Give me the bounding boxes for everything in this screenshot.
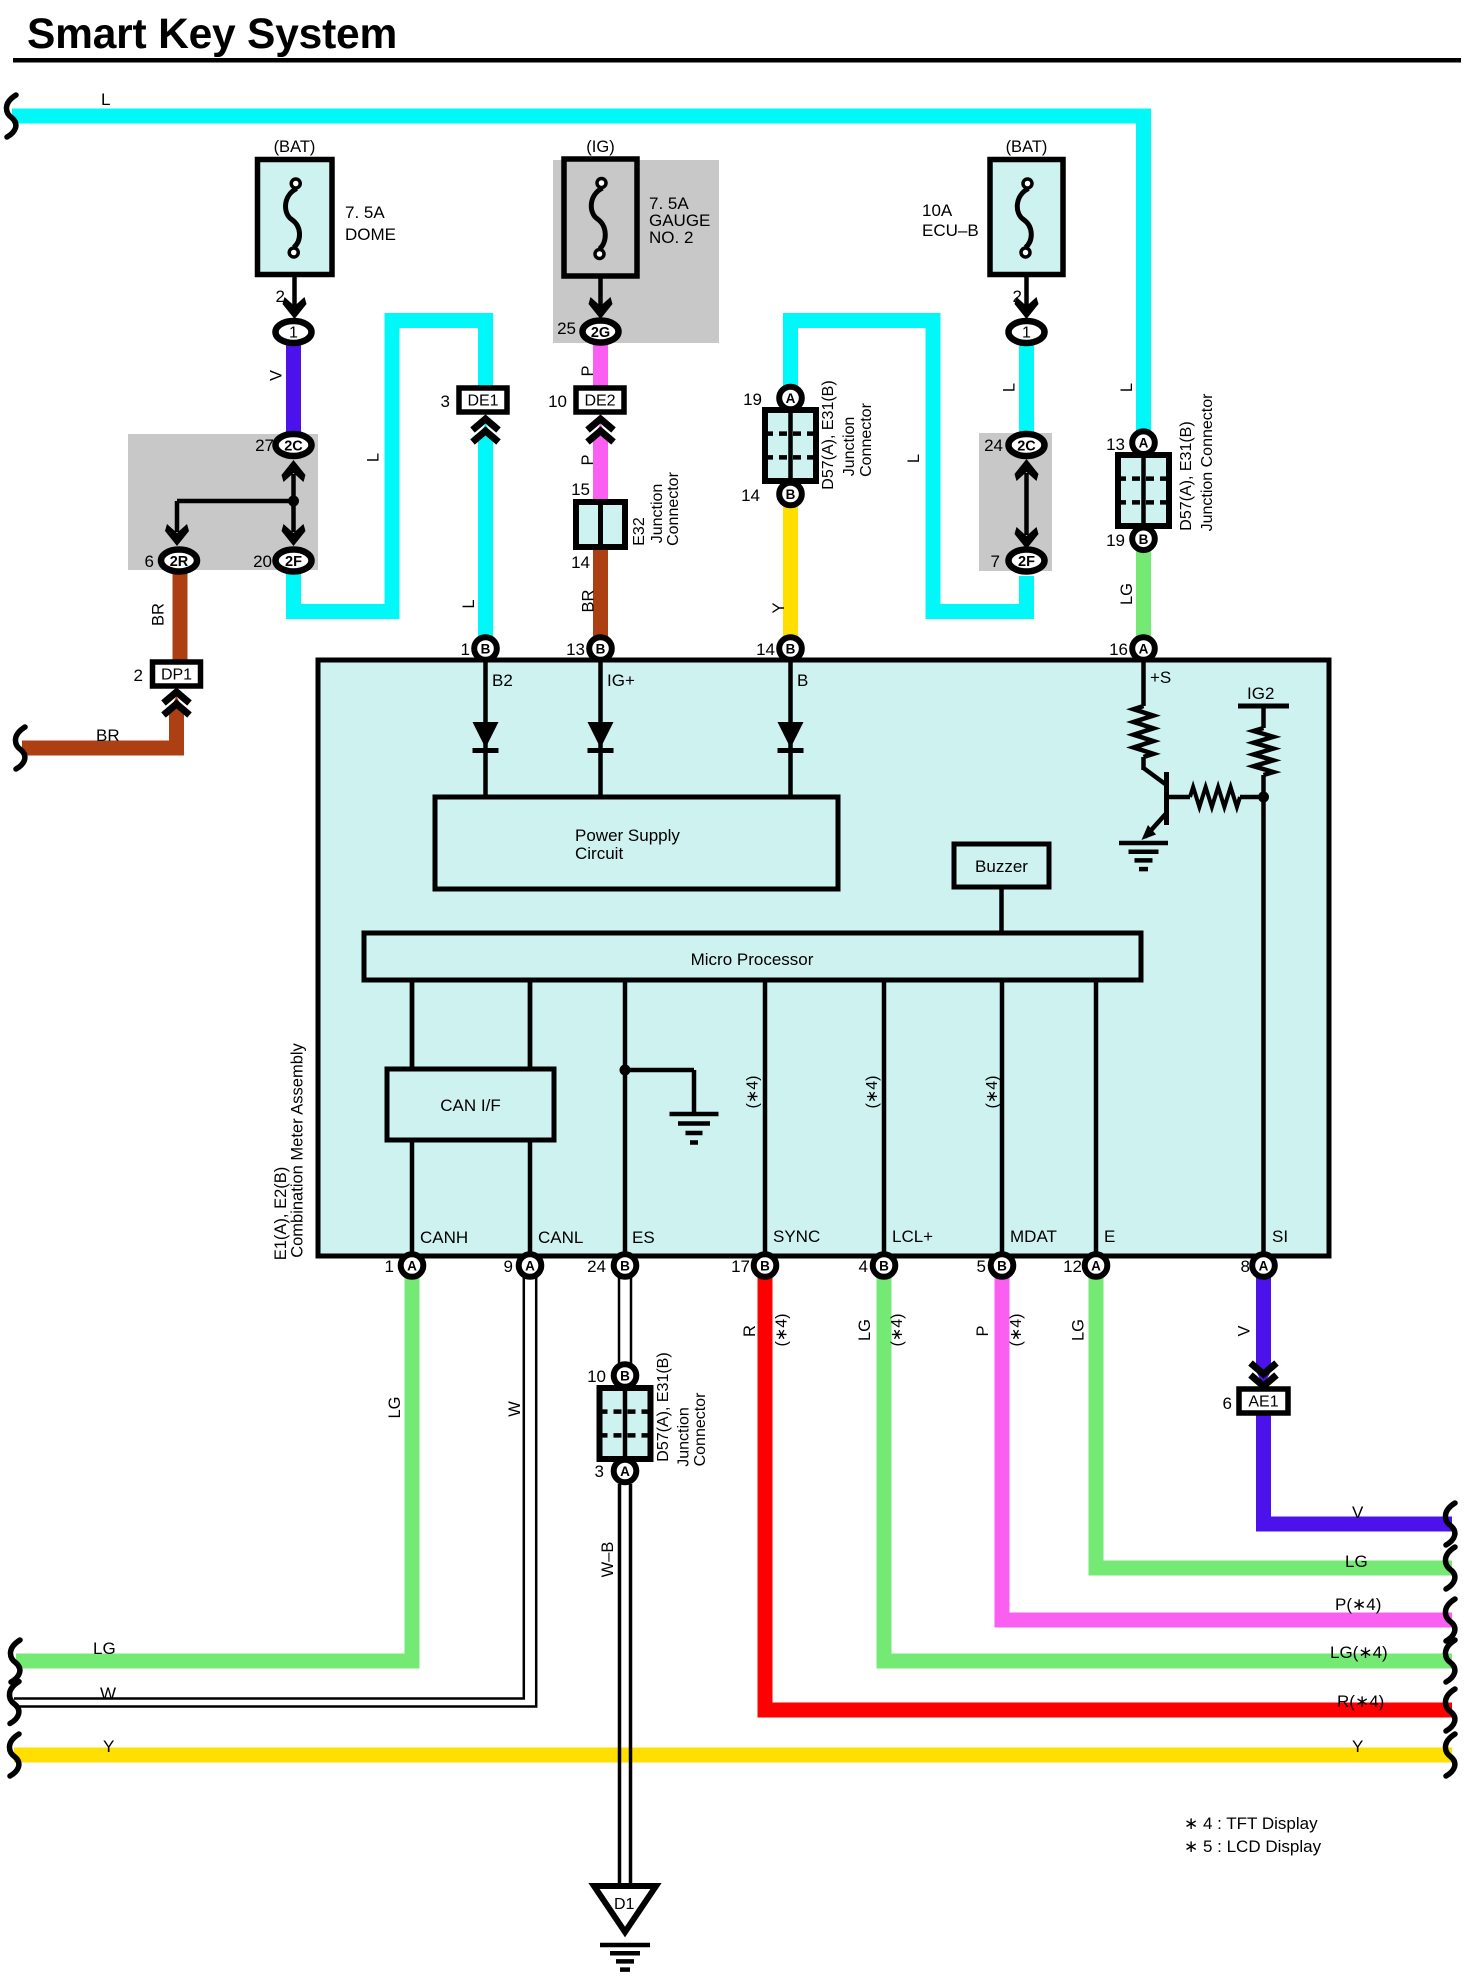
svg-text:13: 13	[566, 640, 585, 659]
svg-text:B: B	[596, 642, 606, 657]
svg-text:17: 17	[731, 1257, 750, 1276]
svg-text:3: 3	[595, 1462, 604, 1481]
svg-text:D57(A), E31(B): D57(A), E31(B)	[820, 380, 837, 489]
svg-text:+S: +S	[1150, 668, 1171, 687]
svg-text:Y: Y	[1352, 1737, 1363, 1756]
svg-text:LG(∗4): LG(∗4)	[1330, 1643, 1388, 1662]
svg-text:LG: LG	[1118, 583, 1136, 605]
svg-text:CANH: CANH	[420, 1228, 468, 1247]
svg-text:10A: 10A	[922, 201, 953, 220]
svg-text:CANL: CANL	[538, 1228, 583, 1247]
svg-text:LG: LG	[93, 1639, 116, 1658]
svg-text:W: W	[506, 1401, 524, 1417]
svg-text:DE2: DE2	[584, 393, 615, 410]
svg-text:B: B	[620, 1259, 630, 1274]
svg-text:Junction Connector: Junction Connector	[1199, 393, 1216, 532]
svg-text:IG+: IG+	[607, 671, 635, 690]
svg-text:(∗4): (∗4)	[889, 1314, 906, 1347]
svg-text:A: A	[1259, 1259, 1269, 1274]
svg-text:MDAT: MDAT	[1010, 1227, 1057, 1246]
svg-text:E32: E32	[631, 517, 648, 546]
svg-text:27: 27	[255, 436, 274, 455]
svg-text:P(∗4): P(∗4)	[1335, 1595, 1381, 1614]
svg-text:Smart Key System: Smart Key System	[27, 11, 397, 58]
svg-text:Junction: Junction	[676, 1407, 693, 1467]
svg-text:2R: 2R	[170, 554, 189, 570]
svg-text:E1(A), E2(B): E1(A), E2(B)	[272, 1167, 290, 1261]
svg-text:A: A	[1139, 436, 1149, 451]
svg-text:16: 16	[1109, 640, 1128, 659]
svg-text:SI: SI	[1272, 1227, 1288, 1246]
svg-text:L: L	[365, 453, 383, 462]
svg-text:A: A	[1091, 1259, 1101, 1274]
svg-text:CAN I/F: CAN I/F	[440, 1096, 500, 1115]
svg-text:P: P	[579, 454, 597, 465]
svg-text:Connector: Connector	[692, 1392, 709, 1466]
svg-text:B2: B2	[492, 671, 513, 690]
svg-text:B: B	[786, 487, 796, 502]
svg-text:D57(A), E31(B): D57(A), E31(B)	[655, 1352, 672, 1461]
svg-text:BR: BR	[580, 589, 598, 612]
svg-text:2F: 2F	[1018, 554, 1035, 570]
svg-text:(∗4): (∗4)	[774, 1314, 791, 1347]
svg-text:NO. 2: NO. 2	[649, 228, 693, 247]
svg-text:P: P	[974, 1325, 992, 1336]
svg-text:Micro Processor: Micro Processor	[691, 950, 814, 969]
svg-text:19: 19	[743, 390, 762, 409]
svg-text:DOME: DOME	[345, 225, 396, 244]
svg-text:Y: Y	[770, 602, 788, 613]
svg-text:20: 20	[253, 552, 272, 571]
svg-text:V: V	[1352, 1503, 1364, 1522]
svg-text:Combination Meter Assembly: Combination Meter Assembly	[289, 1042, 307, 1257]
svg-text:LG: LG	[386, 1396, 404, 1418]
svg-text:(∗4): (∗4)	[745, 1076, 762, 1109]
svg-text:W: W	[100, 1684, 116, 1703]
svg-text:LG: LG	[1345, 1552, 1368, 1571]
svg-text:V: V	[1236, 1325, 1254, 1336]
svg-text:LCL+: LCL+	[892, 1227, 933, 1246]
svg-text:L: L	[101, 90, 110, 109]
svg-text:∗ 5 : LCD Display: ∗ 5 : LCD Display	[1184, 1837, 1322, 1856]
svg-text:24: 24	[984, 436, 1003, 455]
svg-text:(IG): (IG)	[586, 138, 614, 156]
svg-text:B: B	[760, 1259, 770, 1274]
svg-text:LG: LG	[1070, 1319, 1088, 1341]
svg-text:14: 14	[756, 640, 775, 659]
svg-text:24: 24	[587, 1257, 606, 1276]
svg-text:(∗4): (∗4)	[864, 1076, 881, 1109]
svg-text:Junction: Junction	[649, 484, 666, 544]
svg-text:A: A	[1139, 642, 1149, 657]
svg-text:A: A	[407, 1259, 417, 1274]
svg-text:Connector: Connector	[665, 471, 682, 545]
svg-text:SYNC: SYNC	[773, 1227, 820, 1246]
svg-text:ECU–B: ECU–B	[922, 221, 979, 240]
svg-text:5: 5	[977, 1257, 986, 1276]
svg-text:25: 25	[557, 319, 576, 338]
svg-text:7: 7	[991, 552, 1000, 571]
svg-text:(BAT): (BAT)	[1006, 138, 1048, 156]
svg-text:(∗4): (∗4)	[1008, 1314, 1025, 1347]
svg-text:Buzzer: Buzzer	[975, 857, 1028, 876]
svg-text:1: 1	[385, 1257, 394, 1276]
svg-text:R: R	[741, 1325, 759, 1337]
svg-text:ES: ES	[632, 1228, 655, 1247]
svg-text:6: 6	[1223, 1394, 1232, 1413]
svg-text:Junction: Junction	[841, 417, 858, 477]
svg-text:8: 8	[1241, 1257, 1250, 1276]
svg-text:1: 1	[461, 640, 470, 659]
svg-text:B: B	[481, 642, 491, 657]
svg-text:B: B	[797, 671, 808, 690]
svg-text:10: 10	[548, 392, 567, 411]
svg-text:9: 9	[504, 1257, 513, 1276]
svg-text:∗ 4 : TFT Display: ∗ 4 : TFT Display	[1184, 1814, 1318, 1833]
svg-text:W–B: W–B	[599, 1542, 617, 1578]
svg-text:A: A	[620, 1464, 630, 1479]
svg-text:Connector: Connector	[858, 402, 875, 476]
svg-text:LG: LG	[856, 1319, 874, 1341]
svg-text:Power Supply: Power Supply	[575, 826, 680, 845]
svg-text:1: 1	[289, 325, 298, 342]
svg-text:10: 10	[587, 1367, 606, 1386]
svg-text:B: B	[879, 1259, 889, 1274]
svg-text:D1: D1	[614, 1896, 635, 1913]
svg-text:13: 13	[1106, 435, 1125, 454]
svg-text:B: B	[620, 1369, 630, 1384]
svg-text:DE1: DE1	[467, 393, 498, 410]
svg-text:R(∗4): R(∗4)	[1337, 1692, 1384, 1711]
svg-text:BR: BR	[96, 726, 120, 745]
svg-text:L: L	[1118, 383, 1136, 392]
svg-text:B: B	[997, 1259, 1007, 1274]
svg-text:3: 3	[441, 392, 450, 411]
svg-text:1: 1	[1022, 325, 1031, 342]
svg-text:12: 12	[1063, 1257, 1082, 1276]
svg-text:AE1: AE1	[1248, 1394, 1278, 1411]
svg-text:2: 2	[1013, 287, 1022, 306]
svg-text:E: E	[1104, 1227, 1115, 1246]
svg-text:(BAT): (BAT)	[274, 138, 316, 156]
svg-text:2F: 2F	[285, 554, 302, 570]
svg-text:19: 19	[1106, 531, 1125, 550]
svg-text:V: V	[268, 370, 286, 381]
svg-text:IG2: IG2	[1247, 684, 1274, 703]
svg-text:DP1: DP1	[161, 667, 192, 684]
svg-text:2G: 2G	[591, 325, 610, 341]
svg-text:B: B	[786, 642, 796, 657]
svg-text:15: 15	[571, 480, 590, 499]
svg-text:L: L	[460, 599, 478, 608]
svg-text:6: 6	[145, 552, 154, 571]
svg-text:A: A	[525, 1259, 535, 1274]
svg-text:4: 4	[859, 1257, 868, 1276]
svg-text:7. 5A: 7. 5A	[345, 203, 385, 222]
svg-text:B: B	[1139, 532, 1149, 547]
svg-text:D57(A), E31(B): D57(A), E31(B)	[1178, 421, 1195, 530]
svg-text:Circuit: Circuit	[575, 844, 623, 863]
svg-text:(∗4): (∗4)	[984, 1076, 1001, 1109]
svg-text:BR: BR	[150, 603, 168, 626]
svg-text:2: 2	[134, 666, 143, 685]
svg-text:Y: Y	[103, 1737, 114, 1756]
svg-text:14: 14	[571, 553, 590, 572]
svg-text:L: L	[1001, 383, 1019, 392]
svg-text:L: L	[905, 454, 923, 463]
svg-text:2C: 2C	[284, 439, 303, 455]
svg-text:A: A	[786, 391, 796, 406]
svg-text:2C: 2C	[1017, 439, 1036, 455]
svg-text:P: P	[579, 365, 597, 376]
svg-text:14: 14	[741, 486, 760, 505]
